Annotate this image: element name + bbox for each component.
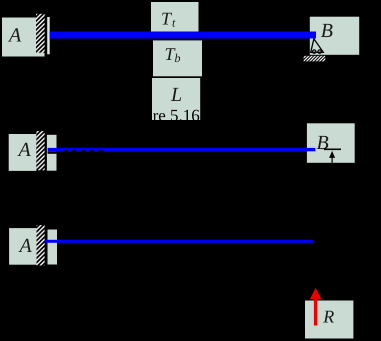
svg-text:A: A [7, 24, 22, 46]
box R (fig c) [305, 301, 353, 339]
svg-text:B: B [321, 20, 333, 42]
svg-text:R: R [322, 306, 334, 326]
wall face strip (fig b) [47, 135, 57, 171]
box A (fig b) [9, 134, 37, 171]
box B (fig b) [307, 123, 355, 163]
initial-position dashed line (fig b) [48, 151, 57, 153]
bar (fig b) [48, 148, 316, 151]
gap arrow at B (fig b) [329, 151, 335, 158]
svg-text:Figure 5.16: Figure 5.16 [121, 106, 199, 125]
box A (fig a) [2, 18, 45, 57]
wall hatch at A (fig b) [36, 131, 44, 170]
wall face strip (fig a) [47, 17, 50, 54]
gap reference line at B (fig b) [324, 149, 341, 151]
bar AB (fig a) [50, 32, 316, 39]
ground hatch under B [304, 56, 326, 62]
box B (fig a) [310, 17, 359, 55]
svg-text:A: A [18, 235, 33, 257]
box Tb (fig a) [153, 40, 202, 76]
svg-text:A: A [17, 139, 32, 161]
box A (fig c) [9, 228, 36, 265]
box Tt (fig a) [151, 2, 199, 33]
wall hatch at A (fig a) [36, 14, 45, 53]
reaction arrow R (fig c) [314, 296, 317, 326]
bar (fig c) [45, 240, 313, 243]
svg-text:L: L [170, 84, 182, 106]
box L (fig a) [152, 78, 200, 120]
wall face strip (fig c) [48, 230, 58, 265]
roller circles at B [313, 50, 316, 53]
wall hatch at A (fig c) [37, 225, 45, 265]
pin support triangle at B [311, 39, 324, 53]
svg-text:B: B [317, 132, 329, 154]
